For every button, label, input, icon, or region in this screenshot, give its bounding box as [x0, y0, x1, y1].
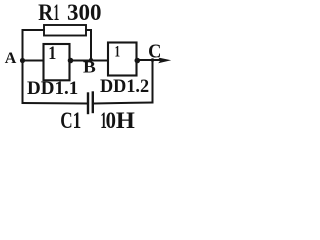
- capacitor reference C1: [60, 109, 81, 134]
- label R1 300 (resistor value): [38, 0, 101, 25]
- junction dot resistor/node B wire: [89, 58, 93, 62]
- svg-text:Н: Н: [116, 109, 136, 134]
- svg-text:A: A: [5, 50, 17, 67]
- wire: node C vertical down to bottom rail: [152, 60, 154, 103]
- svg-text:300: 300: [67, 0, 102, 25]
- junction dot DD1.1 output (node B): [68, 58, 74, 64]
- wire: resistor right vertical down to node B: [90, 30, 92, 60]
- gate DD1.2 function label "1": [115, 42, 121, 59]
- gate DD1.1 function label "1": [48, 42, 56, 64]
- node C label: [148, 41, 161, 63]
- svg-text:C1: C1: [60, 109, 81, 134]
- wire: DD1.1 output to DD1.2 input (node B wire): [70, 60, 109, 62]
- svg-text:R: R: [38, 0, 54, 25]
- node B label: [83, 58, 96, 77]
- wire: resistor top-left lead: [23, 29, 45, 31]
- wire: node A to DD1.1 input: [23, 60, 44, 62]
- svg-text:C: C: [148, 41, 161, 63]
- capacitor value 10H: [100, 108, 135, 134]
- capacitor C1 right plate: [92, 93, 94, 113]
- gate reference DD1.2: [100, 76, 149, 97]
- junction dot DD1.2 output: [135, 58, 141, 64]
- wire: resistor top-right lead: [86, 29, 91, 31]
- capacitor C1 left plate: [87, 94, 89, 114]
- svg-text:0: 0: [106, 108, 116, 133]
- output arrow head at C: [158, 58, 171, 64]
- logic gate DD1.2 box: [108, 43, 137, 76]
- svg-text:DD1.1: DD1.1: [27, 78, 78, 99]
- gate reference DD1.1: [27, 78, 78, 99]
- svg-text:B: B: [83, 58, 96, 77]
- junction dot node C: [151, 58, 155, 62]
- node A label: [5, 50, 17, 67]
- svg-text:1: 1: [54, 0, 60, 25]
- logic gate DD1.1 box: [44, 44, 70, 80]
- wire: bottom rail left segment (rail to capacitor left plate): [23, 102, 88, 105]
- svg-text:DD1.2: DD1.2: [100, 76, 149, 97]
- wire: DD1.2 output to arrow (node C wire): [137, 59, 162, 61]
- resistor R1: [44, 25, 86, 36]
- wire: node A vertical (resistor left lead down to bottom rail): [22, 30, 24, 103]
- wire: bottom rail right segment (capacitor right plate to node C drop): [94, 103, 153, 104]
- svg-text:1: 1: [115, 42, 121, 59]
- svg-text:1: 1: [48, 42, 56, 64]
- junction dot node A: [20, 58, 25, 63]
